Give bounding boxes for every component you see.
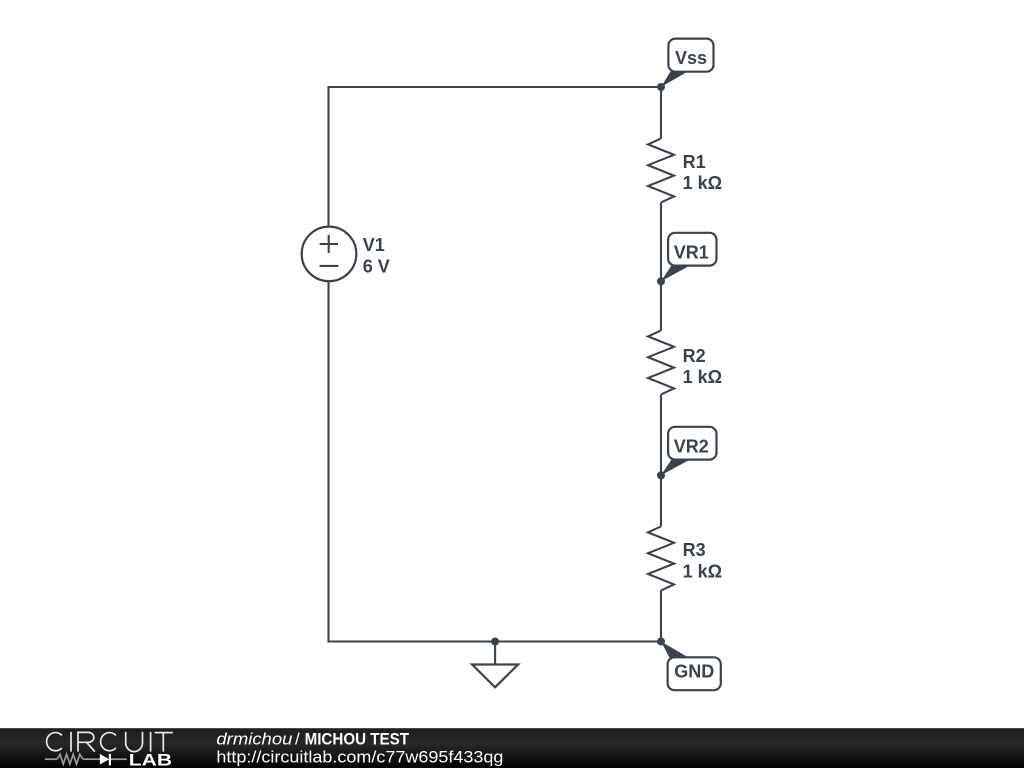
svg-text:R1: R1 [683,152,706,172]
svg-text:MICHOU TEST: MICHOU TEST [305,730,410,749]
svg-text:http://circuitlab.com/c77w695f: http://circuitlab.com/c77w695f433qg [216,748,503,767]
svg-text:LAB: LAB [129,752,172,768]
svg-text:1 kΩ: 1 kΩ [683,367,722,387]
svg-text:1 kΩ: 1 kΩ [683,173,722,193]
svg-text:1 kΩ: 1 kΩ [683,562,722,582]
svg-text:VR2: VR2 [674,436,709,456]
svg-text:GND: GND [674,662,714,682]
svg-text:R3: R3 [683,540,706,560]
svg-text:drmichou: drmichou [216,730,293,749]
svg-text:VR1: VR1 [674,242,709,262]
svg-text:6 V: 6 V [363,257,390,277]
svg-text:V1: V1 [363,235,385,255]
svg-text:/: / [295,730,300,749]
svg-text:Vss: Vss [675,48,707,68]
svg-text:R2: R2 [683,346,706,366]
